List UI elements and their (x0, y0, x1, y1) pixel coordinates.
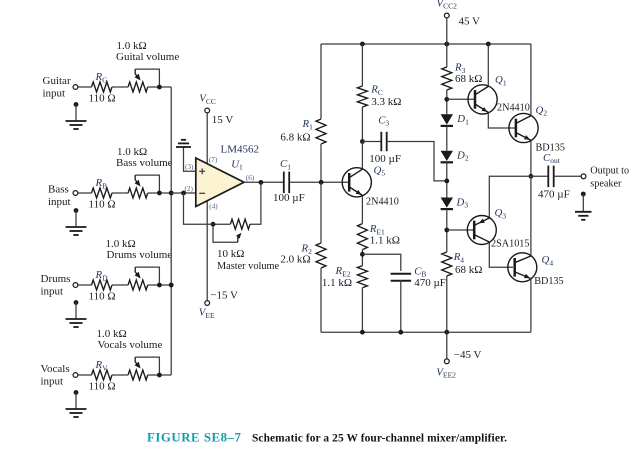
node rail-RC junction (360, 42, 365, 47)
svg-text:68 kΩ: 68 kΩ (455, 73, 482, 85)
wire RE2 to bottom rail (361, 288, 363, 332)
svg-text:input: input (48, 196, 71, 208)
svg-text:1.1 kΩ: 1.1 kΩ (370, 235, 400, 247)
svg-text:2N4410: 2N4410 (497, 102, 530, 113)
svg-text:VCC: VCC (199, 93, 216, 106)
node rail-VEE2 junction (444, 330, 449, 335)
wire rail to R3 (446, 44, 448, 67)
svg-text:Q2: Q2 (536, 104, 548, 117)
wire output node down to Q4 collector (530, 176, 532, 256)
node rail-Q1 junction (486, 42, 491, 47)
node rail-VCC2 junction (444, 42, 449, 47)
wire R4 to bottom rail (446, 276, 448, 332)
wire node to R2 (320, 182, 322, 243)
ground speaker (581, 192, 586, 197)
svg-text:−15 V: −15 V (210, 289, 238, 301)
wire +45V top rail (321, 43, 531, 45)
node Vocals input terminal (73, 373, 78, 378)
wire Q1 emitter to Q2 base (488, 113, 516, 128)
svg-text:100 µF: 100 µF (273, 192, 305, 204)
wire Bass input to RB (78, 192, 91, 194)
wire C1 to Q5 base node (289, 181, 349, 183)
svg-text:D3: D3 (456, 196, 469, 209)
svg-text:1.1 kΩ: 1.1 kΩ (322, 277, 352, 289)
svg-text:470 µF: 470 µF (414, 277, 446, 289)
svg-text:D2: D2 (456, 149, 469, 162)
svg-text:BD135: BD135 (536, 142, 565, 153)
resistor RE2 1.1k (357, 266, 367, 288)
svg-text:Q5: Q5 (374, 164, 386, 177)
wire C3 node to Q5 collector (361, 142, 363, 169)
transistor Q3 2SA1015 (467, 216, 496, 245)
svg-text:U1: U1 (231, 158, 243, 171)
svg-text:Master volume: Master volume (217, 261, 279, 272)
svg-text:Output to: Output to (590, 165, 629, 176)
wire -45V bottom rail (321, 331, 531, 333)
resistor R1 6.8k (316, 119, 326, 144)
svg-text:10 kΩ: 10 kΩ (217, 248, 244, 260)
wire Cout to output terminal (554, 175, 581, 177)
resistor RB 110 ohm (92, 188, 113, 198)
node VCC2 terminal (444, 13, 449, 18)
node rail-RE2 junction (360, 330, 365, 335)
svg-text:45 V: 45 V (459, 16, 481, 28)
svg-text:VCC2: VCC2 (437, 0, 458, 11)
wire RE node to CB (362, 254, 400, 271)
wire RB to Bass pot (112, 192, 128, 194)
svg-text:Vocals volume: Vocals volume (98, 339, 163, 351)
node VEE terminal (205, 301, 210, 306)
svg-text:FIGURE SE8–7: FIGURE SE8–7 (147, 431, 241, 445)
svg-text:VEE2: VEE2 (436, 366, 456, 379)
wire RC to C3 node (361, 107, 363, 142)
svg-text:110 Ω: 110 Ω (89, 381, 116, 393)
svg-text:RD: RD (95, 269, 109, 282)
wire rail to R1 (320, 44, 322, 119)
transistor Q2 BD135 (509, 113, 538, 142)
wire R3 to Q1 base node (446, 90, 448, 114)
wire D3 to Q3 base node (446, 209, 448, 252)
svg-text:100 µF: 100 µF (369, 153, 401, 165)
wire C3 to diode node (387, 142, 447, 181)
svg-text:−45 V: −45 V (454, 349, 482, 361)
svg-text:LM4562: LM4562 (221, 144, 260, 156)
svg-text:input: input (41, 376, 64, 388)
wire Guitar input to RG (78, 86, 91, 88)
wire RE1 to RE2 node (361, 250, 363, 266)
svg-text:C3: C3 (378, 114, 389, 127)
svg-text:68 kΩ: 68 kΩ (455, 264, 482, 276)
node Bass input terminal (73, 191, 78, 196)
ground Bass input (74, 208, 79, 213)
svg-text:RG: RG (95, 71, 109, 84)
resistor RV 110 ohm (92, 370, 113, 380)
svg-text:Q4: Q4 (542, 254, 554, 267)
potentiometer Vocals volume 1.0 k (128, 370, 148, 380)
wire mixing bus vertical (170, 87, 172, 375)
svg-text:3.3 kΩ: 3.3 kΩ (371, 96, 401, 108)
svg-text:input: input (43, 88, 66, 100)
wire rail to RC (361, 44, 363, 86)
resistor RD 110 ohm (92, 280, 113, 290)
capacitor CB 470uF (391, 273, 412, 275)
node rail-CB junction (398, 330, 403, 335)
wire D1 to D2 (446, 126, 448, 151)
svg-text:VEE: VEE (199, 307, 215, 320)
potentiometer Guitar volume 1.0 k (128, 82, 148, 92)
svg-text:110 Ω: 110 Ω (89, 291, 116, 303)
svg-text:input: input (41, 286, 64, 298)
svg-text:R4: R4 (453, 251, 465, 264)
wire Drums input to RD (78, 284, 91, 286)
wire Q3 base (447, 229, 473, 231)
svg-text:Guitar: Guitar (43, 75, 71, 87)
svg-text:Q1: Q1 (495, 74, 507, 87)
svg-text:6.8 kΩ: 6.8 kΩ (280, 132, 310, 144)
wire Q1 collector to rail (487, 44, 489, 86)
svg-text:(6): (6) (246, 174, 255, 182)
wire output to feedback (250, 182, 261, 224)
wire R1 to Q5 base node (320, 144, 322, 182)
node output junction (529, 174, 534, 179)
svg-text:Schematic for a 25 W four-chan: Schematic for a 25 W four-channel mixer/… (252, 433, 507, 445)
svg-text:2.0 kΩ: 2.0 kΩ (280, 254, 310, 266)
wire output node to Q3 emitter (489, 176, 531, 217)
node Drums input terminal (73, 283, 78, 288)
svg-text:Drums volume: Drums volume (107, 249, 173, 261)
capacitor C1 100uF (283, 172, 285, 194)
wire Q1 base (447, 98, 475, 100)
diode D1 (441, 114, 453, 124)
wire Drums pot to bus (148, 284, 172, 286)
svg-text:Vocals: Vocals (41, 363, 70, 375)
svg-text:Guital volume: Guital volume (116, 51, 179, 63)
node Guitar input terminal (73, 85, 78, 90)
svg-text:RV: RV (95, 359, 109, 372)
capacitor Cout 470uF (531, 175, 548, 177)
wire Guitar pot to bus (148, 86, 172, 88)
wire RG to Guitar pot (112, 86, 128, 88)
svg-text:2SA1015: 2SA1015 (491, 239, 530, 250)
svg-text:D1: D1 (456, 113, 469, 126)
svg-text:Cout: Cout (543, 152, 561, 165)
svg-text:(3): (3) (185, 163, 194, 171)
transistor Q5 2N4410 (342, 168, 371, 197)
capacitor C3 100uF (362, 141, 381, 143)
wire op-amp output (244, 181, 283, 183)
svg-text:BD135: BD135 (534, 276, 563, 287)
wire feedback to inverting input (184, 193, 214, 224)
node VEE2 terminal (446, 332, 448, 358)
resistor RG 110 ohm (92, 82, 113, 92)
potentiometer Drums volume 1.0 k (128, 280, 148, 290)
svg-text:110 Ω: 110 Ω (89, 199, 116, 211)
node bus-drums junction (169, 283, 174, 288)
node bus-bass junction (169, 191, 174, 196)
svg-text:speaker: speaker (590, 178, 622, 189)
svg-text:Bass volume: Bass volume (116, 157, 173, 169)
resistor R2 2.0k (316, 243, 326, 268)
wire RD to Drums pot (112, 284, 128, 286)
potentiometer 10k master volume (230, 219, 250, 229)
wire Q2 emitter to output node (530, 141, 532, 177)
wire R2 to bottom rail (320, 268, 322, 332)
ground Guitar input (74, 102, 79, 107)
node VCC terminal (205, 108, 210, 113)
wire Q5 emitter to RE1 (361, 196, 363, 224)
wire Q2 collector to rail (530, 44, 532, 115)
svg-text:2N4410: 2N4410 (366, 196, 399, 207)
resistor R4 68k (442, 252, 452, 276)
svg-text:Bass: Bass (48, 184, 69, 196)
resistor R3 68k (442, 67, 452, 90)
wire VCC/VEE rail through op-amp (206, 113, 208, 300)
resistor RE1 1.1k (357, 224, 367, 250)
svg-text:R1: R1 (302, 118, 314, 131)
node output terminal (581, 174, 586, 179)
svg-text:(7): (7) (209, 156, 218, 164)
wire D2 to D3 node (446, 162, 448, 197)
potentiometer Bass volume 1.0 k (128, 188, 148, 198)
svg-text:C1: C1 (280, 158, 291, 171)
svg-text:Q3: Q3 (495, 207, 507, 220)
transistor Q1 2N4410 (468, 85, 497, 114)
svg-text:470 µF: 470 µF (538, 188, 570, 200)
wire Vocals input to RV (78, 374, 91, 376)
ground op-amp noninverting input (184, 147, 196, 171)
ground Vocals input (74, 390, 79, 395)
wire Q4 emitter to bottom rail (530, 279, 532, 333)
diode D3 (441, 198, 453, 208)
svg-text:Drums: Drums (41, 273, 71, 285)
svg-text:(4): (4) (209, 202, 218, 210)
svg-text:110 Ω: 110 Ω (89, 93, 116, 105)
resistor RC 3.3k (357, 86, 367, 107)
wire Q3 collector to Q4 base (489, 242, 513, 267)
svg-text:15 V: 15 V (212, 114, 234, 126)
svg-text:(2): (2) (185, 185, 194, 193)
diode D2 (441, 151, 453, 161)
wire RV to Vocals pot (112, 374, 128, 376)
wire Bass pot to bus (148, 192, 172, 194)
ground Drums input (74, 300, 79, 305)
transistor Q4 BD135 (508, 253, 537, 282)
svg-text:RC: RC (370, 84, 383, 97)
svg-text:RB: RB (95, 177, 108, 190)
wire bass node to inverting input (171, 192, 196, 194)
wire CB to bottom rail (400, 280, 402, 332)
op-amp U1 LM4562 triangle (196, 158, 244, 207)
wire Vocals pot to bus (148, 374, 172, 376)
